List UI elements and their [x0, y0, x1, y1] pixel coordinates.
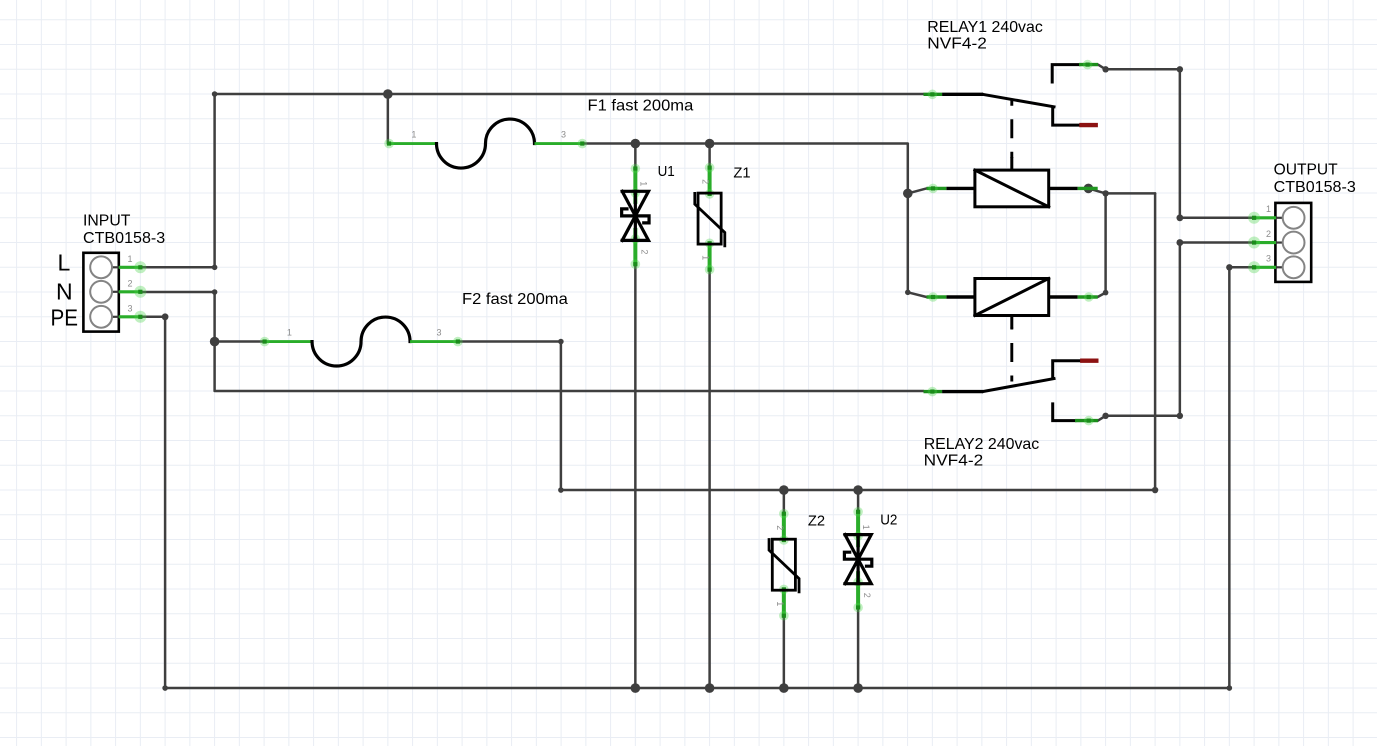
TVS diode U1 [622, 164, 675, 269]
relay RELAY2 coil [927, 279, 1098, 329]
svg-text:N: N [56, 279, 73, 305]
wire Z2 top [783, 490, 786, 514]
node U2 on mid rail [853, 485, 863, 495]
fuse F2 [260, 317, 463, 366]
fuse F1 [384, 119, 587, 168]
wire Z2 bottom to ground rail [783, 617, 786, 689]
relay RELAY1 NO contact [1052, 60, 1098, 82]
wire coil right bus [1088, 188, 1155, 193]
svg-text:1: 1 [701, 255, 711, 260]
svg-text:2: 2 [1266, 229, 1271, 239]
svg-text:1: 1 [411, 130, 416, 140]
svg-text:2: 2 [639, 249, 649, 254]
svg-text:CTB0158-3: CTB0158-3 [1274, 179, 1356, 196]
wire U1 top [634, 144, 637, 169]
svg-text:2: 2 [862, 593, 872, 598]
wire PE: input pin3 to ground rail to output pin3 [140, 267, 1254, 688]
svg-text:U1: U1 [658, 164, 675, 180]
svg-text:2: 2 [128, 278, 133, 288]
wire relay2 NO contact to output pin2 [1098, 243, 1254, 421]
svg-text:1: 1 [775, 601, 785, 606]
node U1 ground [631, 683, 641, 693]
svg-text:RELAY1 240vac: RELAY1 240vac [927, 19, 1043, 36]
connector INPUT CTB0158-3 [51, 213, 166, 332]
svg-text:1: 1 [1266, 204, 1271, 214]
svg-text:Z2: Z2 [808, 514, 825, 530]
svg-text:NVF4-2: NVF4-2 [927, 36, 987, 53]
wire N-phase: input pin2 down to relay2 rail [140, 292, 923, 391]
relay RELAY2 NVF4-2 : common lever [924, 379, 1055, 397]
svg-text:OUTPUT: OUTPUT [1274, 162, 1338, 179]
svg-text:F1 fast 200ma: F1 fast 200ma [588, 98, 694, 115]
svg-text:3: 3 [561, 130, 566, 140]
svg-text:L: L [58, 250, 71, 276]
wire relay1 NO contact to output pin1 [1098, 65, 1254, 218]
wire F2 feed [215, 340, 264, 343]
node Z1 ground [705, 683, 715, 693]
svg-text:3: 3 [437, 328, 442, 338]
svg-text:1: 1 [638, 181, 648, 186]
wire Z1 bottom to ground rail [708, 270, 711, 689]
svg-text:2: 2 [775, 525, 785, 530]
svg-text:PE: PE [51, 305, 79, 331]
relay RELAY2 actuator dashed link [1010, 328, 1013, 382]
svg-text:U2: U2 [880, 512, 897, 528]
node Z1 on F1 output [705, 139, 715, 149]
node top rail / F1 junction [383, 89, 393, 99]
wire U1 bottom to ground rail [634, 265, 637, 689]
wire U2 top [857, 490, 860, 513]
TVS diode U2 [844, 507, 897, 612]
relay RELAY1 actuator dashed link [1010, 100, 1013, 158]
wire F1 output to relay coil feed [584, 144, 927, 297]
relay RELAY2 NC contact (unconnected, red) [1053, 361, 1099, 379]
node coil feed junction [903, 189, 913, 199]
svg-text:1: 1 [287, 328, 292, 338]
relay RELAY2 NO contact [1053, 404, 1098, 426]
relay RELAY1 NC contact (unconnected, red) [1053, 108, 1098, 126]
svg-text:INPUT: INPUT [83, 213, 131, 230]
svg-text:F2 fast 200ma: F2 fast 200ma [462, 291, 568, 308]
varistor Z1 [695, 163, 751, 275]
svg-text:CTB0158-3: CTB0158-3 [83, 230, 165, 247]
svg-text:2: 2 [701, 179, 711, 184]
relay RELAY1 coil [927, 157, 1098, 207]
svg-text:1: 1 [128, 254, 133, 264]
svg-text:RELAY2 240vac: RELAY2 240vac [924, 436, 1040, 453]
wire Z1 top [708, 144, 711, 168]
svg-text:1: 1 [861, 525, 871, 530]
wire U2 bottom to ground rail [857, 611, 860, 689]
wire coil1 left pin tap [908, 188, 927, 193]
node U1 on F1 output [631, 139, 641, 149]
wire L-phase: input pin1 to top rail [140, 94, 923, 267]
varistor Z2 [769, 509, 825, 621]
node coil1 right junction [1084, 184, 1094, 194]
node Z2 on mid rail [779, 485, 789, 495]
node Z2 ground [779, 683, 789, 693]
svg-text:NVF4-2: NVF4-2 [924, 453, 984, 470]
wire F2 output to mid rail and coil right feed [459, 193, 1155, 490]
connector OUTPUT CTB0158-3 [1248, 162, 1356, 282]
node N / F2 junction [210, 337, 220, 347]
svg-text:3: 3 [128, 303, 133, 313]
svg-text:Z1: Z1 [733, 166, 750, 182]
wire F1 tap from top rail [387, 94, 390, 144]
relay RELAY1 NVF4-2 : common lever [924, 90, 1055, 107]
node U2 ground [853, 683, 863, 693]
svg-text:3: 3 [1266, 254, 1271, 264]
